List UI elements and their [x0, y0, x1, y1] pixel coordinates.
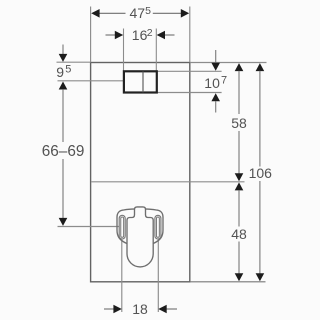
svg-text:106: 106 — [249, 165, 273, 181]
svg-text:10: 10 — [204, 75, 220, 91]
svg-text:5: 5 — [65, 64, 71, 76]
svg-text:18: 18 — [132, 301, 148, 317]
svg-text:47: 47 — [130, 5, 146, 21]
svg-text:58: 58 — [231, 115, 247, 131]
svg-text:5: 5 — [145, 5, 151, 17]
svg-text:2: 2 — [147, 27, 153, 39]
svg-text:7: 7 — [221, 75, 227, 87]
svg-text:66–69: 66–69 — [42, 143, 85, 160]
svg-text:48: 48 — [231, 226, 247, 242]
svg-text:16: 16 — [132, 27, 148, 43]
svg-text:9: 9 — [56, 64, 64, 80]
